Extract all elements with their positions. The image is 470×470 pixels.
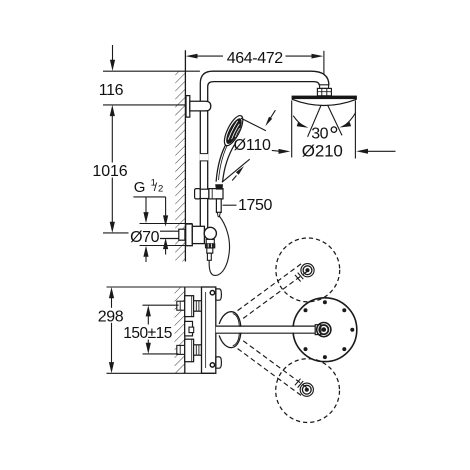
- svg-text:1750: 1750: [238, 197, 272, 214]
- svg-text:Ø110: Ø110: [234, 137, 271, 154]
- svg-text:298: 298: [98, 308, 124, 325]
- svg-text:116: 116: [99, 82, 124, 99]
- svg-text:G: G: [134, 179, 145, 196]
- svg-text:150±15: 150±15: [123, 325, 172, 342]
- svg-text:464-472: 464-472: [227, 50, 283, 67]
- svg-text:Ø210: Ø210: [302, 142, 343, 161]
- svg-text:1016: 1016: [92, 163, 127, 180]
- svg-text:2: 2: [158, 184, 163, 195]
- svg-text:Ø70: Ø70: [130, 229, 160, 246]
- svg-text:30: 30: [311, 125, 328, 142]
